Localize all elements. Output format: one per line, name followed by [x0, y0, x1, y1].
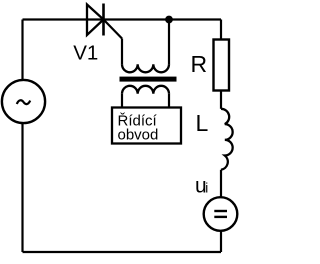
wire left lower [21, 123, 23, 252]
wire secondary left to control box [121, 94, 123, 108]
wire DC source to bottom rail [220, 231, 222, 252]
svg-text:i: i [205, 181, 208, 196]
resistor R [214, 40, 230, 91]
control circuit block Ridici obvod [112, 108, 181, 144]
wire junction to transformer primary [168, 20, 170, 65]
wire secondary right to control box [168, 94, 170, 108]
wire left upper [21, 20, 23, 81]
svg-text:V1: V1 [73, 42, 98, 65]
svg-text:obvod: obvod [118, 127, 159, 144]
label ui [195, 175, 208, 198]
svg-text:L: L [196, 110, 209, 136]
transformer secondary winding [122, 86, 169, 94]
wire top rail corner to resistor [220, 20, 222, 41]
wire inductor to DC source [220, 170, 222, 197]
transformer primary winding [122, 64, 169, 72]
wire bottom rail [23, 251, 222, 253]
wire resistor to inductor [220, 91, 222, 109]
svg-text:R: R [191, 51, 208, 77]
node junction dot on top rail [165, 16, 173, 24]
DC source ui [204, 197, 238, 231]
thyristor V1 [87, 4, 122, 39]
wire top rail [23, 18, 222, 20]
transformer core [120, 77, 177, 82]
inductor L [221, 109, 233, 170]
wire gate elbow to transformer primary [121, 39, 123, 65]
AC source [2, 80, 45, 123]
